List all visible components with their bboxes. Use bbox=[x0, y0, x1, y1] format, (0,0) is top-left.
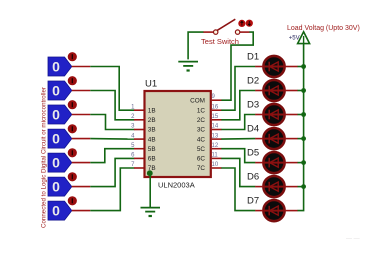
LED D7 anode stub bbox=[286, 210, 298, 212]
pin name 2B bbox=[148, 117, 156, 124]
pin name 6B bbox=[148, 156, 156, 163]
label +5V bbox=[289, 36, 300, 42]
junction node on +V bus row 1 bbox=[301, 64, 306, 69]
LED D7 bbox=[263, 200, 286, 221]
node E junction dot at pin 8 of U1 bbox=[147, 170, 153, 176]
wire: test switch right to U1 COM pin 9 bbox=[221, 32, 253, 100]
svg-text:0: 0 bbox=[52, 155, 60, 171]
test switch left terminal bbox=[214, 30, 218, 34]
label Test Switch bbox=[201, 37, 239, 46]
ULN2003A pin 13 stub (output 4C) bbox=[212, 138, 222, 140]
LED D2 cathode stub bbox=[255, 90, 263, 92]
logic state input 2 (value 0) bbox=[48, 76, 77, 100]
pin name 7B bbox=[148, 165, 156, 172]
test switch lever bbox=[217, 19, 236, 31]
label D5 bbox=[247, 147, 259, 158]
label D2 bbox=[247, 75, 259, 86]
pin stub of logic state 7 bbox=[72, 210, 91, 212]
pin name 5B bbox=[148, 146, 156, 153]
wire: ULN2003A output 3C to LED D3 bbox=[221, 115, 255, 130]
wire: ULN2003A output 7C to LED D7 bbox=[221, 168, 255, 211]
svg-text:5B: 5B bbox=[148, 146, 156, 153]
LED D7 cathode stub bbox=[255, 210, 263, 212]
svg-text:4C: 4C bbox=[197, 136, 206, 143]
label Load Voltag (Upto 30V) bbox=[287, 25, 360, 32]
junction node on +V bus row 4 bbox=[301, 136, 306, 141]
pin stub of logic state 6 bbox=[72, 186, 91, 188]
svg-text:Load Voltag (Upto 30V): Load Voltag (Upto 30V) bbox=[287, 25, 360, 32]
pin name 1C bbox=[197, 107, 206, 114]
svg-text:2C: 2C bbox=[197, 117, 206, 124]
svg-text:0: 0 bbox=[52, 59, 60, 75]
ULN2003A pin 15 stub (output 2C) bbox=[212, 119, 222, 121]
junction node on +V bus row 5 bbox=[301, 160, 306, 165]
svg-text:13: 13 bbox=[212, 133, 219, 139]
annotation: Connected to Logic Digital Circuit or microcontroller bbox=[41, 87, 48, 228]
wire: ULN2003A output 1C to LED D1 bbox=[221, 67, 255, 111]
LED D6 bbox=[263, 176, 286, 197]
svg-text:D3: D3 bbox=[247, 99, 259, 110]
wire: logic input 5 to ULN2003A pin 5 bbox=[90, 149, 134, 163]
label ULN2003A bbox=[158, 181, 195, 190]
LED D5 bbox=[263, 152, 286, 173]
pin number 10 bbox=[212, 162, 219, 168]
svg-text:0: 0 bbox=[52, 107, 60, 123]
pin stub of logic state 2 bbox=[72, 90, 91, 92]
pin name 2C bbox=[197, 117, 206, 124]
faint marks bottom right bbox=[346, 236, 360, 242]
LED D6 anode stub bbox=[286, 186, 298, 188]
wire: LED D3 to +V bus bbox=[298, 114, 304, 116]
pin name 3B bbox=[148, 127, 156, 134]
svg-text:D2: D2 bbox=[247, 75, 259, 86]
wire: logic input 1 to ULN2003A pin 1 bbox=[90, 67, 134, 111]
pin stub of logic state 3 bbox=[72, 114, 91, 116]
svg-text:D6: D6 bbox=[247, 171, 259, 182]
svg-text:3C: 3C bbox=[197, 127, 206, 134]
junction node on +V bus row 2 bbox=[301, 88, 306, 93]
logic state input 7 (value 0) bbox=[48, 196, 77, 220]
test switch left pin stub bbox=[203, 31, 213, 33]
wire: logic input 4 to ULN2003A pin 4 bbox=[90, 138, 134, 141]
wire: ULN2003A output 4C to LED D4 bbox=[221, 138, 255, 141]
ULN2003A pin 12 stub (output 5C) bbox=[212, 148, 222, 150]
svg-text:11: 11 bbox=[212, 153, 219, 159]
pin number 15 bbox=[212, 114, 219, 120]
LED D6 cathode stub bbox=[255, 186, 263, 188]
svg-text:D4: D4 bbox=[247, 123, 259, 134]
svg-text:ULN2003A: ULN2003A bbox=[158, 181, 195, 190]
svg-text:COM: COM bbox=[190, 97, 205, 104]
pin number 7 bbox=[131, 162, 135, 168]
label D3 bbox=[247, 99, 259, 110]
wire: test switch left to ground bbox=[188, 32, 204, 59]
logic state input 5 (value 0) bbox=[48, 148, 77, 172]
ULN2003A pin 3 stub (input 3B) bbox=[134, 129, 144, 131]
pin name COM bbox=[190, 97, 205, 104]
pin stub of logic state 4 bbox=[72, 138, 91, 140]
pin name 1B bbox=[148, 107, 156, 114]
ULN2003A pin 2 stub (input 2B) bbox=[134, 119, 144, 121]
LED D3 anode stub bbox=[286, 114, 298, 116]
pin stub of logic state 1 bbox=[72, 66, 91, 68]
svg-text:D7: D7 bbox=[247, 195, 259, 206]
svg-text:D1: D1 bbox=[247, 51, 259, 62]
svg-text:16: 16 bbox=[212, 104, 219, 110]
LED D1 anode stub bbox=[286, 66, 298, 68]
LED D1 cathode stub bbox=[255, 66, 263, 68]
svg-text:3B: 3B bbox=[148, 127, 156, 134]
svg-text:D5: D5 bbox=[247, 147, 259, 158]
pin number 4 bbox=[131, 133, 135, 139]
svg-text:6B: 6B bbox=[148, 156, 156, 163]
logic state input 1 (value 0) bbox=[48, 52, 77, 76]
pin number 9 bbox=[212, 94, 216, 100]
LED D5 cathode stub bbox=[255, 162, 263, 164]
wire: LED D6 to +V bus bbox=[298, 186, 304, 188]
wire: logic input 2 to ULN2003A pin 2 bbox=[90, 91, 134, 120]
pin number 3 bbox=[131, 124, 135, 130]
svg-text:5C: 5C bbox=[197, 146, 206, 153]
svg-text:0: 0 bbox=[52, 131, 60, 147]
pin number 16 bbox=[212, 104, 219, 110]
logic state input 3 (value 0) bbox=[48, 100, 77, 124]
pin number 2 bbox=[131, 114, 135, 120]
ULN2003A pin 9 COM stub bbox=[212, 99, 222, 101]
wire: ULN2003A output 6C to LED D6 bbox=[221, 158, 255, 186]
ULN2003A pin 6 stub (input 6B) bbox=[134, 157, 144, 159]
wire: U1 pin 8 to ground bbox=[149, 173, 151, 207]
LED D4 bbox=[263, 128, 286, 149]
svg-text:7C: 7C bbox=[197, 165, 206, 172]
svg-text:10: 10 bbox=[212, 162, 219, 168]
svg-text:12: 12 bbox=[212, 143, 219, 149]
LED D4 cathode stub bbox=[255, 138, 263, 140]
pin number 14 bbox=[212, 124, 219, 130]
wire: ULN2003A output 5C to LED D5 bbox=[221, 149, 255, 163]
logic state input 6 (value 0) bbox=[48, 172, 77, 196]
ground under U1 bbox=[141, 208, 161, 217]
pin name 4B bbox=[148, 136, 156, 143]
svg-text:2B: 2B bbox=[148, 117, 156, 124]
ULN2003A pin 1 stub (input 1B) bbox=[134, 109, 144, 111]
junction node on +V bus row 3 bbox=[301, 112, 306, 117]
LED D4 anode stub bbox=[286, 138, 298, 140]
wire: LED D1 to +V bus bbox=[298, 66, 304, 68]
wire: LED D4 to +V bus bbox=[298, 138, 304, 140]
pin name 4C bbox=[197, 136, 206, 143]
pin name 3C bbox=[197, 127, 206, 134]
svg-text:15: 15 bbox=[212, 114, 219, 120]
LED D2 bbox=[263, 80, 286, 101]
ground under test switch bbox=[178, 62, 198, 72]
pin number 13 bbox=[212, 133, 219, 139]
ULN2003A pin 11 stub (output 6C) bbox=[212, 157, 222, 159]
label D7 bbox=[247, 195, 259, 206]
svg-text:+5V: +5V bbox=[289, 36, 300, 42]
wire: LED D2 to +V bus bbox=[298, 90, 304, 92]
svg-text:— —: — — bbox=[346, 236, 360, 242]
pin name 7C bbox=[197, 165, 206, 172]
pin name 6C bbox=[197, 156, 206, 163]
pin number 12 bbox=[212, 143, 219, 149]
pin number 11 bbox=[212, 153, 219, 159]
svg-text:1B: 1B bbox=[148, 107, 156, 114]
pin name 5C bbox=[197, 146, 206, 153]
svg-text:14: 14 bbox=[212, 124, 219, 130]
svg-text:Connected to Logic Digital Cir: Connected to Logic Digital Circuit or mi… bbox=[41, 87, 48, 228]
LED D1 bbox=[263, 56, 286, 77]
LED D3 bbox=[263, 104, 286, 125]
ULN2003A pin 14 stub (output 3C) bbox=[212, 129, 222, 131]
svg-text:6C: 6C bbox=[197, 156, 206, 163]
test switch right pin stub bbox=[240, 31, 250, 33]
wire: ULN2003A output 2C to LED D2 bbox=[221, 91, 255, 120]
op-amp/driver IC U1 ULN2003A body bbox=[145, 91, 211, 177]
label D1 bbox=[247, 51, 259, 62]
wire: logic input 6 to ULN2003A pin 6 bbox=[90, 158, 134, 186]
wire: +V bus vertical bbox=[298, 45, 304, 210]
ULN2003A pin 16 stub (output 1C) bbox=[212, 109, 222, 111]
LED D5 anode stub bbox=[286, 162, 298, 164]
pin number 6 bbox=[131, 153, 135, 159]
test switch right terminal bbox=[235, 30, 239, 34]
svg-text:4B: 4B bbox=[148, 136, 156, 143]
pin number 1 bbox=[131, 104, 135, 110]
LED D3 cathode stub bbox=[255, 114, 263, 116]
wire: logic input 7 to ULN2003A pin 7 bbox=[90, 168, 134, 211]
svg-text:0: 0 bbox=[52, 83, 60, 99]
LED D2 anode stub bbox=[286, 90, 298, 92]
label D6 bbox=[247, 171, 259, 182]
svg-text:U1: U1 bbox=[145, 79, 157, 90]
ULN2003A pin 10 stub (output 7C) bbox=[212, 167, 222, 169]
svg-text:1C: 1C bbox=[197, 107, 206, 114]
ULN2003A pin 7 stub (input 7B) bbox=[134, 167, 144, 169]
svg-text:0: 0 bbox=[52, 203, 60, 219]
svg-text:0: 0 bbox=[52, 179, 60, 195]
power terminal +5V arrow bbox=[298, 32, 310, 46]
ULN2003A pin 5 stub (input 5B) bbox=[134, 148, 144, 150]
test switch toggle buttons bbox=[238, 20, 253, 27]
pin number 5 bbox=[131, 143, 135, 149]
label D4 bbox=[247, 123, 259, 134]
wire: logic input 3 to ULN2003A pin 3 bbox=[90, 115, 134, 130]
ULN2003A pin 4 stub (input 4B) bbox=[134, 138, 144, 140]
label U1 bbox=[145, 79, 157, 90]
wire: LED D5 to +V bus bbox=[298, 162, 304, 164]
logic state input 4 (value 0) bbox=[48, 124, 77, 148]
pin stub of logic state 5 bbox=[72, 162, 91, 164]
junction node on +V bus row 6 bbox=[301, 184, 306, 189]
